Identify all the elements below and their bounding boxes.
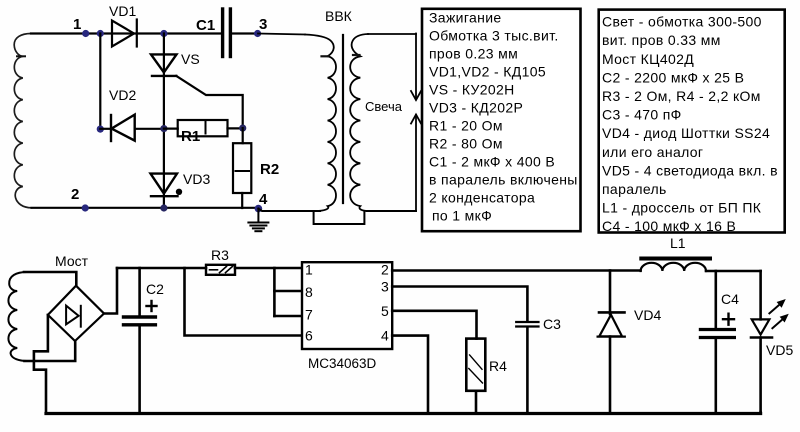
svg-text:Свет - обмотка 300-500: Свет - обмотка 300-500	[602, 14, 762, 30]
VD2 anode junction	[97, 126, 104, 133]
svg-text:7: 7	[305, 307, 313, 323]
VD5 emission arrow 1	[769, 300, 784, 314]
input winding W1 (ignition coil)	[14, 34, 31, 208]
wire node3 to transformer primary	[258, 34, 305, 35]
secondary polarity tick	[353, 54, 360, 56]
svg-text:VD3 - КД202Р: VD3 - КД202Р	[429, 100, 523, 116]
capacitor C1	[223, 9, 231, 57]
C2 plates	[124, 317, 156, 325]
R4 power marks	[469, 355, 483, 383]
svg-text:Зажигание: Зажигание	[429, 10, 502, 26]
wire VS/VD3 branch vertical	[163, 34, 165, 209]
svg-text:4: 4	[381, 328, 389, 344]
wire secondary bottom	[367, 210, 416, 212]
wire pin 2 to L1 rail	[392, 269, 640, 272]
VD3 marker dot	[176, 189, 182, 195]
wire bridge minus jog down-left	[34, 315, 48, 412]
C3 lead bottom	[526, 328, 529, 413]
light winding W2 (bottom coil)	[8, 272, 27, 361]
thyristor VS	[151, 54, 177, 76]
svg-text:С4 - 100 мкФ х 16 В: С4 - 100 мкФ х 16 В	[602, 218, 736, 234]
svg-text:или его аналог: или его аналог	[602, 144, 703, 160]
C2 lead bottom	[138, 327, 141, 413]
svg-text:3: 3	[381, 279, 389, 295]
svg-text:MC34063D: MC34063D	[308, 356, 377, 371]
wire C1 to node 3	[231, 32, 258, 34]
transformer bottom bracket	[314, 211, 365, 224]
spark gap wire upper with down arrow	[411, 34, 421, 101]
svg-text:VD4 - диод Шоттки SS24: VD4 - диод Шоттки SS24	[602, 125, 770, 141]
ground symbol	[248, 209, 268, 232]
node 4	[255, 205, 263, 213]
top rail to R3	[117, 267, 206, 270]
wire junction to R1	[164, 128, 178, 130]
svg-text:по 1 мкФ: по 1 мкФ	[432, 208, 492, 224]
center junction node	[160, 125, 167, 132]
wire node1 row	[31, 32, 222, 34]
svg-text:R1: R1	[181, 128, 200, 145]
svg-text:R4: R4	[489, 358, 507, 374]
svg-text:VD4: VD4	[634, 307, 661, 323]
resistor R4	[466, 339, 485, 391]
node 1	[82, 30, 89, 37]
wire pin 4 to ground rail	[392, 336, 428, 413]
svg-text:C4: C4	[721, 291, 739, 307]
IC U1 MC34063D body	[302, 262, 392, 349]
svg-text:VS: VS	[181, 51, 200, 67]
wire VD2 branch vertical	[99, 34, 101, 130]
R1/R2/gate junction	[239, 125, 246, 132]
svg-text:1: 1	[305, 262, 313, 278]
capacitor C2 lead top	[138, 268, 141, 315]
bottom ground rail	[46, 412, 761, 415]
wire R2 to bottom	[241, 193, 243, 208]
svg-text:С1 - 2 мкФ х 400 В: С1 - 2 мкФ х 400 В	[429, 154, 555, 170]
capacitor C3 plates	[516, 322, 538, 327]
svg-text:C3: C3	[543, 316, 561, 332]
spark gap wire lower with up arrow	[411, 115, 421, 212]
resistor R3	[206, 265, 235, 275]
svg-text:VS - КУ202Н: VS - КУ202Н	[429, 82, 515, 98]
wire pin 7	[274, 315, 302, 318]
svg-text:в паралель включены: в паралель включены	[429, 172, 578, 188]
winding W1 polarity tick	[17, 55, 25, 57]
VD5 cathode bar	[751, 336, 772, 339]
R3 power marks	[210, 266, 233, 272]
wire coil top to bridge	[24, 272, 76, 286]
svg-text:L1: L1	[670, 235, 686, 251]
diode VD2	[111, 115, 135, 141]
capacitor C4 lead top	[714, 271, 717, 328]
svg-text:C2: C2	[146, 281, 164, 297]
node 2	[82, 204, 89, 211]
wire L1 to VD5 corner	[706, 270, 761, 273]
svg-text:Мост КЦ402Д: Мост КЦ402Д	[602, 51, 694, 67]
C2 plus sign	[147, 301, 157, 311]
svg-text:VD3: VD3	[183, 171, 210, 187]
svg-text:ВВК: ВВК	[325, 8, 353, 24]
C4 plus sign	[723, 314, 734, 325]
inductor L1 winding	[641, 263, 706, 271]
svg-text:паралель: паралель	[602, 181, 667, 197]
svg-text:Свеча: Свеча	[365, 99, 403, 114]
wire pins 1-8-7 bus vertical	[273, 268, 276, 316]
svg-text:8: 8	[305, 284, 313, 300]
VD5 lead bottom	[759, 338, 762, 413]
bridge inner diode	[66, 306, 81, 327]
svg-text:Мост: Мост	[55, 253, 89, 269]
svg-text:6: 6	[305, 328, 313, 344]
svg-text:2: 2	[381, 262, 389, 278]
R1 power tick	[205, 122, 207, 134]
node 3	[254, 30, 261, 37]
LED VD5 lead top	[759, 271, 762, 319]
svg-text:L1 - дроссель от БП ПК: L1 - дроссель от БП ПК	[602, 200, 762, 216]
wire VD2 to center junction	[135, 128, 164, 130]
svg-text:С3 - 470 пФ: С3 - 470 пФ	[602, 107, 682, 123]
wire junction to R2	[242, 128, 244, 143]
wire secondary top to spark wire	[368, 33, 416, 35]
svg-text:VD1,VD2 - КД105: VD1,VD2 - КД105	[429, 64, 546, 80]
R4 lead bottom	[475, 391, 478, 412]
VD5 emission arrow 2	[772, 315, 787, 329]
svg-text:Обмотка 3 тыс.вит.: Обмотка 3 тыс.вит.	[429, 28, 559, 44]
wire R3 to chip pin1	[235, 267, 302, 270]
svg-text:R2 - 80 Ом: R2 - 80 Ом	[429, 136, 503, 152]
LED VD5 triangle	[752, 319, 770, 334]
svg-text:1: 1	[73, 16, 81, 33]
junction to VD2 branch	[97, 30, 104, 37]
svg-text:VD5: VD5	[766, 342, 793, 358]
svg-text:R3 - 2 Ом, R4 - 2,2 кОм: R3 - 2 Ом, R4 - 2,2 кОм	[602, 88, 761, 104]
wire VS gate	[176, 76, 242, 128]
svg-text:VD5 - 4 светодиода вкл. в: VD5 - 4 светодиода вкл. в	[602, 162, 778, 178]
svg-text:R2: R2	[260, 161, 279, 178]
wire node4 to transformer	[258, 209, 320, 211]
wire node2 row (bottom)	[32, 207, 259, 209]
wire bridge plus up to top rail	[104, 268, 117, 314]
C4 lead bottom	[714, 339, 717, 412]
svg-text:VD2: VD2	[109, 87, 136, 103]
wire R1 to right junction	[228, 127, 243, 129]
inductor L1 core bar	[641, 257, 710, 261]
diode VD1	[112, 20, 137, 47]
R2 power tick	[236, 170, 250, 172]
svg-text:R3: R3	[211, 247, 229, 263]
wire pin 3 to C3	[392, 287, 527, 321]
svg-text:5: 5	[381, 303, 389, 319]
diode VD4 (Schottky)	[598, 271, 625, 413]
primary polarity tick	[322, 55, 329, 57]
svg-text:4: 4	[259, 191, 268, 208]
svg-text:С2 - 2200 мкФ х 25 В: С2 - 2200 мкФ х 25 В	[602, 69, 744, 85]
bridge rectifier diamond	[48, 286, 104, 341]
junction to VS branch	[160, 30, 167, 37]
svg-text:VD1: VD1	[109, 3, 136, 19]
wire VD2 anode lead	[100, 128, 111, 130]
wire coil bottom to bridge bottom	[25, 341, 76, 361]
wire pin 6 branch from rail	[185, 268, 303, 336]
resistor R1	[178, 120, 228, 136]
wire pin 8	[274, 290, 302, 293]
svg-text:2: 2	[71, 186, 79, 203]
diode VD3	[151, 174, 178, 197]
transformer ВВК primary winding	[305, 35, 336, 212]
svg-text:пров 0.23 мм: пров 0.23 мм	[429, 46, 518, 62]
VD5 rail right vertical joins rail	[759, 412, 762, 414]
VD3 bottom junction	[160, 204, 167, 211]
wire pin 5 to R4	[392, 311, 476, 339]
svg-text:R1 - 20 Ом: R1 - 20 Ом	[429, 118, 503, 134]
resistor R2	[233, 143, 251, 193]
transformer core	[342, 35, 344, 203]
svg-text:C1: C1	[196, 17, 215, 34]
transformer secondary winding	[350, 34, 368, 211]
svg-text:вит. пров 0.33 мм: вит. пров 0.33 мм	[602, 32, 721, 48]
C4 plates	[700, 330, 734, 338]
svg-text:2 конденсатора: 2 конденсатора	[429, 190, 535, 206]
svg-text:3: 3	[259, 16, 267, 33]
spec box 2 (Свет)	[599, 10, 785, 233]
spec box 1 (Зажигание)	[422, 9, 581, 231]
